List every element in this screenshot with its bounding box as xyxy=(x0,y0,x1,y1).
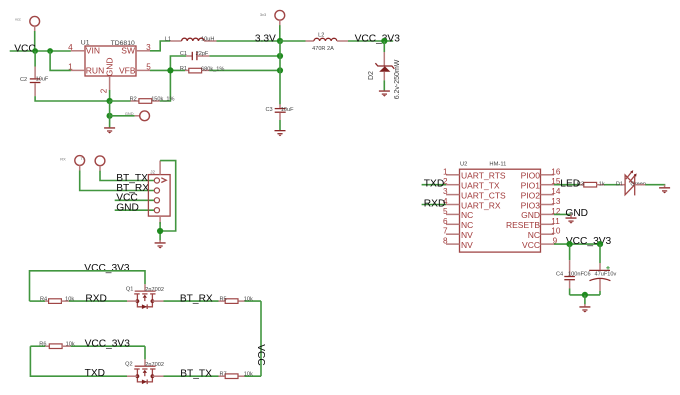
svg-text:2n7002: 2n7002 xyxy=(145,287,164,293)
pin 11 RESETB xyxy=(541,223,555,225)
svg-text:47uF10v: 47uF10v xyxy=(595,272,617,278)
svg-text:J2: J2 xyxy=(150,169,155,174)
svg-text:PIO3: PIO3 xyxy=(521,200,541,210)
pin 4 VIN xyxy=(71,50,85,52)
wire D1 to ground xyxy=(645,184,665,186)
svg-text:C1: C1 xyxy=(180,51,187,57)
svg-text:TXD: TXD xyxy=(85,368,105,379)
svg-text:NC: NC xyxy=(461,220,473,230)
svg-text:GND: GND xyxy=(125,111,134,116)
svg-text:UART_RX: UART_RX xyxy=(461,200,501,210)
pin circle 2 xyxy=(154,188,159,193)
svg-text:VCC_3V3: VCC_3V3 xyxy=(85,338,131,349)
ground below J2 xyxy=(155,242,166,248)
pin 7 NV xyxy=(446,233,460,235)
wire TXD row xyxy=(30,346,127,376)
inductor L2 470R 2A xyxy=(280,40,306,42)
capacitor C1 22pF xyxy=(170,56,186,70)
wire caps bottom row xyxy=(570,294,600,296)
svg-text:TXD: TXD xyxy=(424,179,444,190)
ground below D2 xyxy=(379,90,390,96)
pin 1 UART_RTS xyxy=(446,174,460,176)
op-amp U1 TD6810 box xyxy=(85,46,136,76)
wire to GND port xyxy=(110,115,135,117)
svg-text:NC: NC xyxy=(528,230,540,240)
pin stub J2 top xyxy=(159,161,161,175)
junction C4 xyxy=(567,241,573,247)
pin 10 NC xyxy=(541,233,555,235)
svg-text:L2: L2 xyxy=(318,32,324,38)
pin 14 PIO2 xyxy=(541,194,555,196)
wire Q1 drain to R5 xyxy=(164,300,219,302)
wire Q2 drain to R7 xyxy=(164,375,219,377)
svg-text:1: 1 xyxy=(443,167,448,176)
label VCC vertical xyxy=(255,344,266,366)
svg-text:VCC_3V3: VCC_3V3 xyxy=(84,263,130,274)
capacitor C6 47uF10v polarized xyxy=(599,244,601,263)
ground below U1 xyxy=(104,127,115,133)
svg-text:VFB: VFB xyxy=(119,66,136,76)
junction J2 ground xyxy=(157,228,163,234)
svg-text:4: 4 xyxy=(68,43,73,52)
svg-text:RESETB: RESETB xyxy=(506,220,540,230)
svg-text:C4: C4 xyxy=(556,272,563,278)
svg-text:U2: U2 xyxy=(460,162,467,168)
svg-text:R3: R3 xyxy=(577,181,584,187)
wire RX port to BT_TX row xyxy=(100,171,154,181)
svg-text:UART_CTS: UART_CTS xyxy=(461,190,506,200)
svg-text:PIO0: PIO0 xyxy=(521,171,541,181)
junction R1/3.3V rail xyxy=(277,67,283,73)
svg-text:R2: R2 xyxy=(130,96,137,102)
svg-text:2: 2 xyxy=(100,88,109,93)
svg-text:Tx: Tx xyxy=(81,156,85,161)
svg-text:PIO2: PIO2 xyxy=(521,190,541,200)
svg-text:13: 13 xyxy=(551,197,561,206)
junction VCC/C2 xyxy=(32,48,38,54)
wire VCC_3V3 row Q1 xyxy=(30,271,146,301)
wire J2 shield loop xyxy=(160,161,176,231)
svg-text:470R 2A: 470R 2A xyxy=(312,46,334,52)
pin circle 3 xyxy=(154,198,159,203)
svg-text:VCC_3V3: VCC_3V3 xyxy=(566,236,612,247)
wire pin15 to R3 xyxy=(554,184,580,186)
svg-text:VCC_3V3: VCC_3V3 xyxy=(355,33,401,44)
svg-text:10k: 10k xyxy=(244,297,253,303)
resistor R6 10k xyxy=(30,345,45,347)
svg-text:NV: NV xyxy=(461,230,473,240)
svg-text:10: 10 xyxy=(551,227,561,236)
ground pin12 xyxy=(566,214,577,223)
svg-text:BT_RX: BT_RX xyxy=(180,293,213,304)
transistor Q1 2n7002 xyxy=(127,284,164,309)
junction VFB node xyxy=(167,67,173,73)
junction GND node xyxy=(107,98,113,104)
pin 12 GND xyxy=(541,213,555,215)
svg-text:680k_1%: 680k_1% xyxy=(201,66,224,72)
pin 1 RUN xyxy=(71,69,85,71)
svg-text:RXD: RXD xyxy=(85,293,107,304)
capacitor C3 10uF xyxy=(279,104,281,108)
pin 8 NV xyxy=(446,243,460,245)
svg-text:NC: NC xyxy=(461,210,473,220)
port RX circle xyxy=(95,156,105,171)
pin 5 VFB xyxy=(136,69,150,71)
svg-text:C2: C2 xyxy=(20,77,27,83)
wire RXD to pin4 xyxy=(422,204,446,206)
svg-text:C3: C3 xyxy=(266,107,273,113)
svg-text:2n7002: 2n7002 xyxy=(145,362,164,368)
svg-text:22pF: 22pF xyxy=(196,51,209,57)
capacitor C2 xyxy=(34,51,36,67)
pin 2 UART_TX xyxy=(446,184,460,186)
transistor Q2 2n7002 xyxy=(127,359,164,384)
svg-text:RUN: RUN xyxy=(86,66,104,76)
svg-text:Q2: Q2 xyxy=(125,362,132,368)
svg-text:VCC: VCC xyxy=(522,240,540,250)
junction C1/3.3V rail xyxy=(277,53,283,59)
svg-text:10k: 10k xyxy=(65,297,74,303)
svg-text:1k: 1k xyxy=(599,181,605,187)
wire VCC_3V3 to Q2 gate xyxy=(144,346,146,359)
wire VCC stub xyxy=(115,199,154,201)
wire 3.3V port drop xyxy=(279,25,281,41)
svg-text:10uF: 10uF xyxy=(36,77,49,83)
svg-text:10k: 10k xyxy=(244,372,253,378)
svg-text:100nF: 100nF xyxy=(568,272,584,278)
svg-text:Q1: Q1 xyxy=(126,287,133,293)
wire GND stub xyxy=(115,209,154,211)
pin stub J2 bottom xyxy=(159,216,161,224)
wire VCC row xyxy=(10,50,71,52)
svg-text:R1: R1 xyxy=(180,66,187,72)
diode D2 zener 6.2v-250mW xyxy=(383,41,385,52)
wire junction to ground xyxy=(584,295,586,305)
resistor R2 150k_1% xyxy=(110,100,131,102)
wire VCC port drop xyxy=(34,31,36,51)
svg-text:vcc: vcc xyxy=(15,17,21,22)
supply port 3.3V circle xyxy=(275,10,285,25)
svg-text:6: 6 xyxy=(443,217,448,226)
pin 3 SW xyxy=(136,50,150,52)
wire SW riser xyxy=(150,41,170,51)
junction caps ground xyxy=(582,292,588,298)
svg-text:R7: R7 xyxy=(220,372,227,378)
wire TX port to BT_RX row xyxy=(80,171,154,191)
svg-text:R6: R6 xyxy=(39,342,46,348)
supply port VCC circle xyxy=(30,16,40,31)
ground caps xyxy=(579,306,590,312)
svg-text:HM-11: HM-11 xyxy=(489,162,506,168)
ground below C3 xyxy=(275,130,286,136)
pin tip caps ground xyxy=(584,304,586,306)
wire pin9 VCC_3V3 xyxy=(554,243,600,245)
wire pin12 GND xyxy=(554,213,571,215)
junction ground branch xyxy=(107,113,113,119)
IC U2 HM-11 box xyxy=(460,169,541,252)
svg-text:10uH: 10uH xyxy=(201,36,214,42)
svg-text:VCC: VCC xyxy=(255,344,266,366)
wire RUN branch xyxy=(50,51,71,70)
svg-text:GND: GND xyxy=(565,208,588,219)
pin 2 GND vertical xyxy=(109,76,111,90)
svg-text:GND: GND xyxy=(116,203,139,214)
pin 6 NC xyxy=(446,223,460,225)
wire J2 bottom to junction xyxy=(159,222,161,241)
wire TXD to pin2 xyxy=(422,184,446,186)
diode D1 LED Green xyxy=(620,184,625,186)
svg-text:BT_TX: BT_TX xyxy=(180,369,212,380)
junction C6 xyxy=(597,241,603,247)
svg-text:10k: 10k xyxy=(66,342,75,348)
supply port GND circle xyxy=(140,111,150,121)
svg-text:VCC: VCC xyxy=(14,43,36,54)
pin 13 PIO3 xyxy=(541,204,555,206)
pin 5 NC xyxy=(446,213,460,215)
svg-text:C6: C6 xyxy=(584,272,591,278)
svg-text:UART_RTS: UART_RTS xyxy=(461,171,506,181)
wire 3.3V rail down xyxy=(279,41,281,104)
svg-text:8: 8 xyxy=(443,237,448,246)
junction VCC_3V3/D2 xyxy=(381,38,387,44)
svg-text:D1: D1 xyxy=(616,181,623,187)
connector J2 box xyxy=(148,175,170,217)
svg-text:L1: L1 xyxy=(165,36,171,42)
pin 3 UART_CTS xyxy=(446,194,460,196)
port TX circle xyxy=(75,156,85,171)
resistor R1 680k_1% xyxy=(150,69,185,71)
pin 1 chevron xyxy=(161,178,166,183)
svg-text:11: 11 xyxy=(551,217,560,226)
resistor R3 1k xyxy=(580,184,584,186)
pin 9 VCC xyxy=(541,243,555,245)
wire L1 to 3.3V node xyxy=(217,40,281,42)
svg-text:NV: NV xyxy=(461,240,473,250)
wire VCC vertical xyxy=(260,301,262,376)
pin 16 PIO0 xyxy=(541,174,555,176)
wire to lower junction xyxy=(109,101,111,127)
pin circle 4 xyxy=(154,208,159,213)
svg-text:3.3V: 3.3V xyxy=(255,33,276,44)
plus mark C6 xyxy=(606,266,610,270)
resistor R5 10k xyxy=(219,300,225,302)
svg-text:3v3: 3v3 xyxy=(260,12,266,17)
svg-text:7: 7 xyxy=(443,227,448,236)
svg-text:16: 16 xyxy=(551,167,561,176)
pin 4 UART_RX xyxy=(446,204,460,206)
pin tip ground xyxy=(159,240,161,242)
svg-text:6.2v-250mW: 6.2v-250mW xyxy=(394,59,401,99)
svg-text:PIO1: PIO1 xyxy=(521,181,541,191)
junction VCC/RUN xyxy=(47,48,53,54)
svg-text:VIN: VIN xyxy=(86,46,100,56)
svg-text:GND: GND xyxy=(521,210,540,220)
pin circle 1 xyxy=(154,178,159,183)
resistor R7 10k xyxy=(219,375,225,377)
junction 3.3V xyxy=(277,38,283,44)
svg-text:R5: R5 xyxy=(220,297,227,303)
svg-text:SW: SW xyxy=(121,46,135,56)
svg-text:R4: R4 xyxy=(40,297,47,303)
svg-text:RXD: RXD xyxy=(424,198,446,209)
inductor L1 10uH xyxy=(170,40,182,42)
svg-text:10uF: 10uF xyxy=(281,107,294,113)
svg-text:150k_1%: 150k_1% xyxy=(151,97,174,103)
resistor R4 10k xyxy=(30,300,46,302)
svg-text:GND: GND xyxy=(104,58,114,77)
svg-text:D2: D2 xyxy=(368,71,375,80)
ground LED xyxy=(659,185,670,194)
wire GND pin to junction xyxy=(109,90,111,101)
capacitor C4 100nF xyxy=(569,244,571,260)
svg-text:RX: RX xyxy=(60,156,66,161)
pin 15 PIO1 xyxy=(541,184,555,186)
svg-text:UART_TX: UART_TX xyxy=(461,181,500,191)
